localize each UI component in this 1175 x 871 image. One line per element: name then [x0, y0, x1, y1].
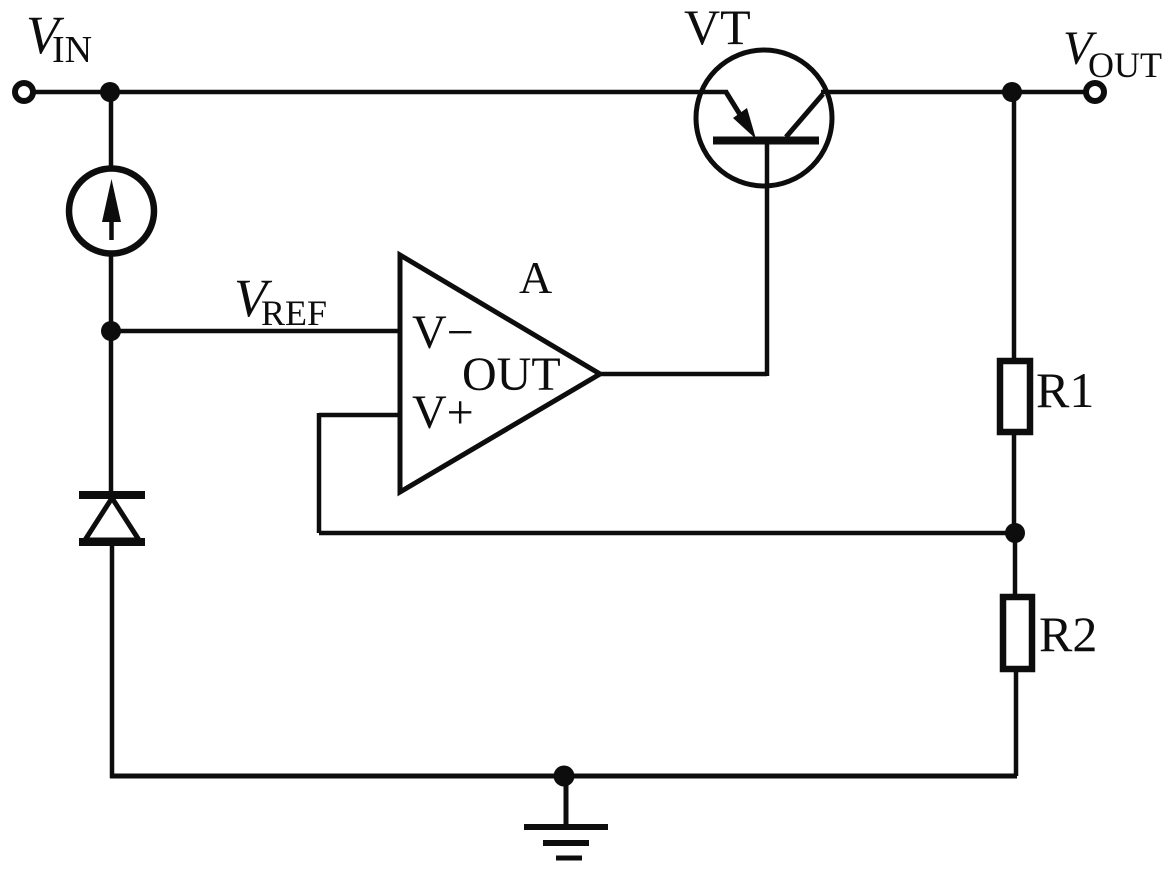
wire bottom rail — [110, 774, 1017, 779]
svg-text:IN: IN — [52, 29, 92, 71]
junction node ground — [554, 766, 575, 787]
wire transistor base lead — [765, 142, 770, 376]
svg-text:A: A — [519, 252, 552, 303]
zener diode VD — [79, 495, 145, 542]
svg-text:R2: R2 — [1039, 606, 1097, 662]
wire VOUT node to R1 — [1012, 92, 1017, 360]
wire V+ feedback vertical — [317, 413, 322, 533]
resistor R2 — [1003, 597, 1032, 669]
current source I1 — [69, 169, 154, 254]
svg-text:VT: VT — [684, 0, 751, 55]
svg-text:V+: V+ — [412, 386, 474, 439]
wire transistor collector to VOUT — [821, 90, 1086, 95]
wire R1 to feedback node — [1012, 435, 1017, 533]
terminal VIN — [15, 83, 33, 101]
junction node feedback R1 R2 — [1005, 523, 1025, 543]
svg-text:OUT: OUT — [462, 348, 561, 401]
svg-text:OUT: OUT — [1088, 45, 1162, 85]
wire VIN node down to current source — [109, 92, 114, 170]
junction node VOUT — [1002, 82, 1022, 102]
wire feedback bottom horizontal — [319, 531, 1015, 536]
wire op-amp output — [600, 372, 767, 377]
resistor R1 — [1000, 361, 1030, 432]
junction node VIN — [100, 82, 120, 102]
svg-text:REF: REF — [261, 293, 327, 333]
wire top rail: VIN to transistor emitter — [34, 90, 728, 95]
wire R2 to bottom rail — [1014, 669, 1019, 776]
junction node VREF — [101, 321, 121, 341]
wire current source to VREF node and diode — [109, 253, 114, 493]
wire feedback node to R2 — [1013, 533, 1018, 597]
svg-text:R1: R1 — [1036, 362, 1094, 418]
wire VREF node to op-amp V- input — [111, 329, 400, 334]
transistor VT — [696, 50, 832, 186]
wire V+ input horizontal — [319, 413, 400, 418]
op-amp A — [400, 255, 600, 492]
wire diode to bottom rail — [110, 546, 115, 778]
terminal VOUT — [1086, 83, 1104, 101]
ground — [524, 776, 608, 858]
